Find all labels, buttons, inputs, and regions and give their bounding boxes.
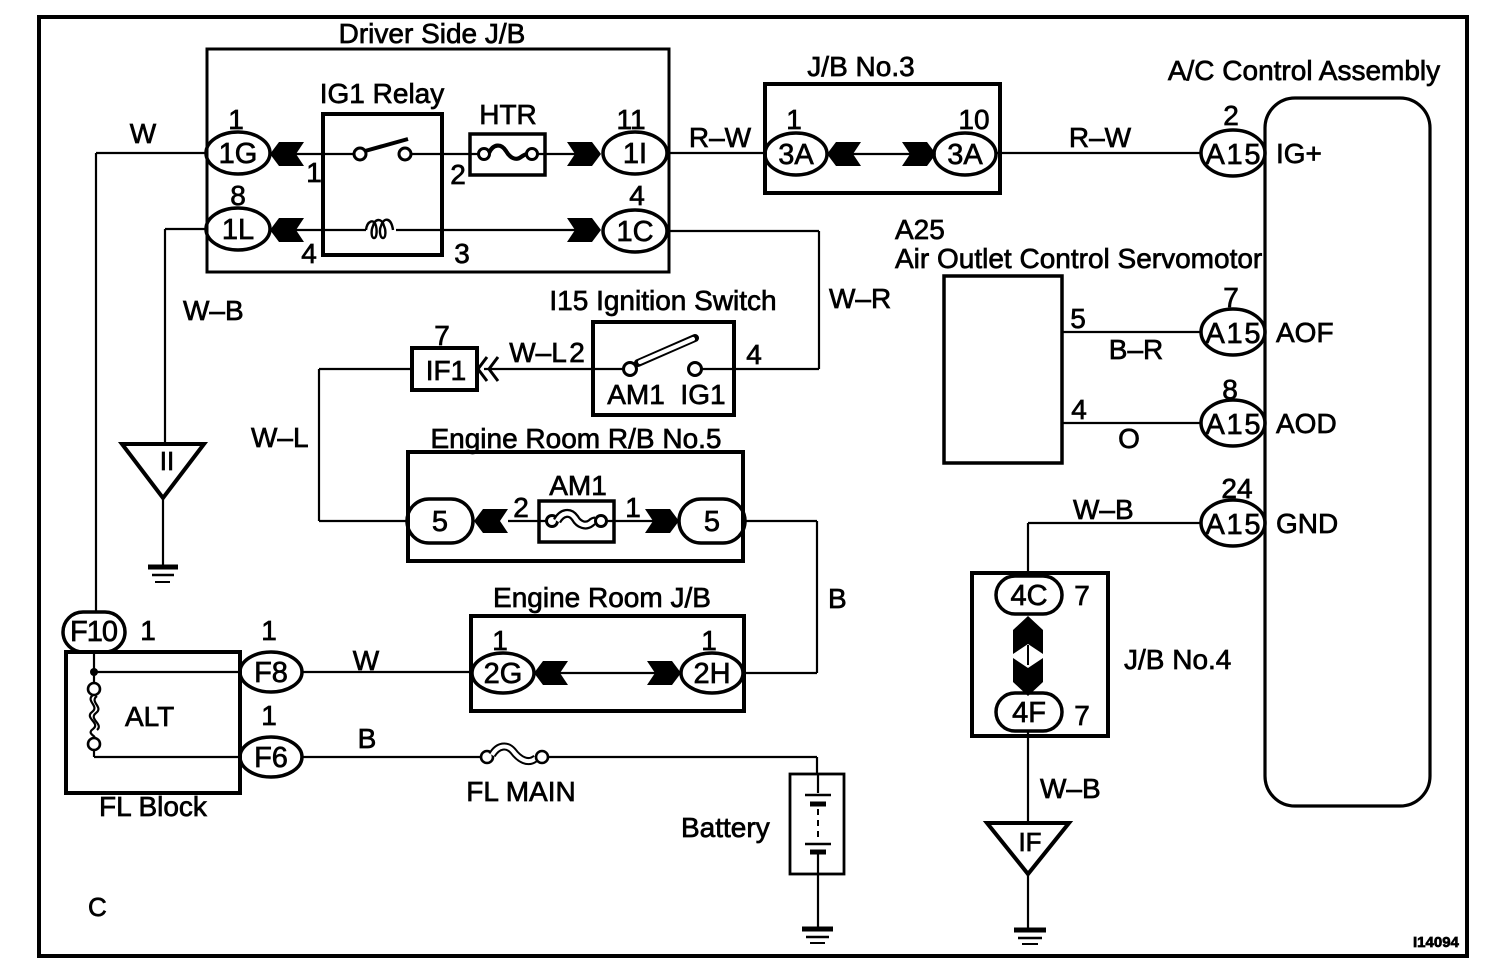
svg-text:10: 10 (958, 104, 989, 135)
svg-text:Driver Side J/B: Driver Side J/B (339, 18, 526, 49)
svg-text:1C: 1C (616, 216, 653, 248)
wire R-W 1I to J/B No.3 (667, 152, 765, 154)
connector 1C (603, 180, 667, 252)
svg-text:4F: 4F (1012, 697, 1046, 729)
svg-text:7: 7 (1074, 700, 1090, 731)
svg-text:A15: A15 (1206, 409, 1261, 441)
wire W-B A15 GND to J/B No.4 (1028, 523, 1201, 577)
svg-text:5: 5 (432, 506, 448, 538)
svg-text:GND: GND (1276, 508, 1338, 539)
connector 1L (206, 180, 270, 250)
connector A15 pin 2 (1201, 100, 1265, 176)
junction block: Driver Side J/B (207, 18, 669, 272)
arrow into 5 left (474, 509, 508, 533)
wire W-R 1C to ignition switch (667, 231, 819, 369)
junction block Engine Room J/B (471, 582, 744, 711)
alternator ALT symbol (88, 652, 174, 757)
svg-text:FL Block: FL Block (99, 791, 208, 822)
svg-text:IG1 Relay: IG1 Relay (320, 78, 445, 109)
arrow into 5 right (645, 509, 679, 533)
arrow into 3A right (902, 142, 936, 166)
wire O servo to A15 (1062, 422, 1201, 424)
connector 3A pin 10 (934, 104, 996, 175)
junction block J/B No.3 (765, 51, 1000, 193)
svg-text:W–R: W–R (829, 283, 891, 314)
connector F8 (240, 615, 302, 692)
svg-text:1: 1 (306, 157, 322, 188)
svg-text:IF: IF (1018, 827, 1041, 857)
svg-text:II: II (160, 446, 174, 476)
svg-text:1: 1 (140, 615, 156, 646)
svg-text:AM1: AM1 (549, 470, 607, 501)
svg-text:1: 1 (786, 104, 802, 135)
svg-text:O: O (1118, 423, 1140, 454)
svg-text:A15: A15 (1206, 139, 1261, 171)
wire W from 1G (96, 153, 206, 613)
svg-text:ALT: ALT (125, 701, 174, 732)
svg-text:AM1: AM1 (607, 379, 665, 410)
connector 3A pin 1 (765, 104, 827, 175)
svg-text:11: 11 (616, 104, 645, 135)
arrow into 1L (270, 218, 304, 242)
wire W-B 4F to IF ground (1027, 731, 1029, 823)
svg-text:B: B (358, 723, 377, 754)
fusible link FL MAIN (466, 746, 575, 807)
ground symbol battery (802, 929, 833, 943)
device A25 Air Outlet Control Servomotor (895, 214, 1262, 463)
connector A15 pin 7 (1201, 282, 1265, 355)
svg-text:R–W: R–W (689, 122, 752, 153)
svg-text:2: 2 (450, 159, 466, 190)
svg-text:2H: 2H (693, 658, 730, 690)
arrow into 1G (270, 142, 304, 166)
svg-text:W: W (130, 118, 157, 149)
connector 2G (472, 625, 534, 693)
svg-text:I15 Ignition Switch: I15 Ignition Switch (549, 285, 776, 316)
svg-text:A15: A15 (1206, 318, 1261, 350)
svg-text:IF1: IF1 (426, 355, 466, 386)
relay coil (323, 220, 442, 238)
svg-text:IG+: IG+ (1276, 138, 1322, 169)
svg-text:5: 5 (1070, 303, 1086, 334)
svg-text:W: W (353, 645, 380, 676)
switch I15 Ignition Switch (549, 285, 776, 415)
svg-text:W–B: W–B (1073, 494, 1134, 525)
relay K1 IG1 Relay (320, 78, 445, 255)
arrow into 3A left (827, 142, 861, 166)
connector 2H (681, 625, 743, 693)
svg-text:F10: F10 (70, 616, 118, 648)
wire B F6 to battery (302, 757, 817, 774)
wire W-L IF1 to R/B No.5 (319, 369, 412, 521)
battery (681, 774, 844, 927)
svg-text:1: 1 (261, 700, 277, 731)
svg-text:W–L: W–L (251, 422, 309, 453)
ground symbol IF (1014, 930, 1046, 944)
wire W F8 to 2G (302, 671, 472, 673)
svg-text:AOF: AOF (1276, 317, 1334, 348)
svg-text:1I: 1I (623, 138, 647, 170)
svg-text:B: B (828, 583, 847, 614)
svg-text:2: 2 (513, 492, 529, 523)
svg-text:4: 4 (1071, 394, 1087, 425)
svg-text:J/B No.4: J/B No.4 (1124, 644, 1231, 675)
connector 5 right (679, 499, 745, 543)
chevrons at IF1 (478, 357, 593, 381)
connector F10 (63, 612, 156, 652)
svg-text:I14094: I14094 (1413, 934, 1460, 951)
arrow into 1I (567, 142, 601, 166)
wire arrow to relay pin 1 (296, 153, 323, 155)
ground symbol left (148, 567, 178, 582)
svg-text:A/C Control Assembly: A/C Control Assembly (1168, 55, 1440, 86)
connector A15 pin 8 (1201, 374, 1265, 446)
svg-text:C: C (88, 892, 107, 922)
svg-text:2: 2 (1223, 100, 1239, 131)
connector 1G (206, 104, 270, 174)
svg-text:1: 1 (261, 615, 277, 646)
svg-text:4: 4 (629, 180, 645, 211)
svg-text:7: 7 (1074, 580, 1090, 611)
wire B-R servo to A15 (1062, 331, 1201, 333)
fuse HTR (442, 99, 576, 175)
svg-text:1L: 1L (222, 214, 254, 246)
connector F6 (240, 700, 302, 777)
svg-text:4: 4 (746, 339, 762, 370)
fuse AM1 (508, 470, 653, 542)
svg-text:3A: 3A (947, 139, 983, 171)
svg-text:4: 4 (301, 238, 317, 269)
svg-text:F8: F8 (254, 657, 288, 689)
svg-text:IG1: IG1 (680, 379, 725, 410)
svg-text:Battery: Battery (681, 812, 770, 843)
svg-text:3: 3 (454, 238, 470, 269)
svg-text:3A: 3A (778, 139, 814, 171)
relay switch contacts (323, 139, 442, 160)
connector 5 left (407, 499, 473, 543)
connector 1I (603, 104, 667, 174)
ground triangle II (122, 444, 204, 566)
svg-text:Engine Room J/B: Engine Room J/B (493, 582, 711, 613)
wire W-B from 1L (165, 229, 206, 444)
svg-text:2: 2 (569, 337, 585, 368)
wire between arrows (853, 153, 910, 155)
svg-text:AOD: AOD (1276, 408, 1337, 439)
svg-text:B–R: B–R (1109, 334, 1163, 365)
connector A15 pin 24 (1201, 473, 1265, 546)
wire F10 to F8 (94, 671, 240, 673)
svg-text:1G: 1G (219, 138, 258, 170)
wire R-W 3A to A15 (996, 152, 1201, 154)
svg-text:W–L: W–L (509, 337, 567, 368)
svg-text:5: 5 (704, 506, 720, 538)
ECU box A/C Control Assembly (1168, 55, 1440, 806)
connector 4C (996, 576, 1090, 614)
wire arrow to relay pin 4 (296, 229, 323, 231)
device FL Block (66, 652, 240, 822)
svg-text:HTR: HTR (479, 99, 537, 130)
switch contacts AM1 IG1 (593, 338, 734, 376)
junction block J/B No.4 (972, 573, 1231, 736)
fuse IF1 (412, 320, 477, 390)
wire between arrows (560, 672, 655, 674)
svg-text:W–B: W–B (1040, 773, 1101, 804)
wire 2H to B vertical (743, 672, 817, 674)
svg-text:A15: A15 (1206, 509, 1261, 541)
connector 4F (996, 693, 1090, 731)
svg-text:R–W: R–W (1069, 122, 1132, 153)
svg-text:FL MAIN: FL MAIN (466, 776, 575, 807)
wire ALT to F6 (94, 756, 240, 758)
svg-text:A25: A25 (895, 214, 945, 245)
svg-text:F6: F6 (254, 742, 288, 774)
wire B from R/B No.5 to 2H (745, 521, 817, 673)
ground triangle IF (987, 823, 1069, 928)
svg-text:2G: 2G (484, 658, 523, 690)
svg-text:Engine Room R/B No.5: Engine Room R/B No.5 (430, 423, 721, 454)
svg-text:4C: 4C (1010, 580, 1047, 612)
double arrow between 4C and 4F (1013, 616, 1043, 696)
arrow into 2G (534, 661, 568, 685)
svg-text:W–B: W–B (183, 295, 244, 326)
svg-text:Air Outlet Control Servomotor: Air Outlet Control Servomotor (895, 243, 1262, 274)
arrow into 2H (647, 661, 681, 685)
arrow into 1C (567, 218, 601, 242)
svg-text:1: 1 (625, 492, 641, 523)
relay block Engine Room R/B No.5 (408, 423, 743, 561)
svg-text:J/B No.3: J/B No.3 (807, 51, 914, 82)
wire coil to 1C (442, 229, 576, 231)
